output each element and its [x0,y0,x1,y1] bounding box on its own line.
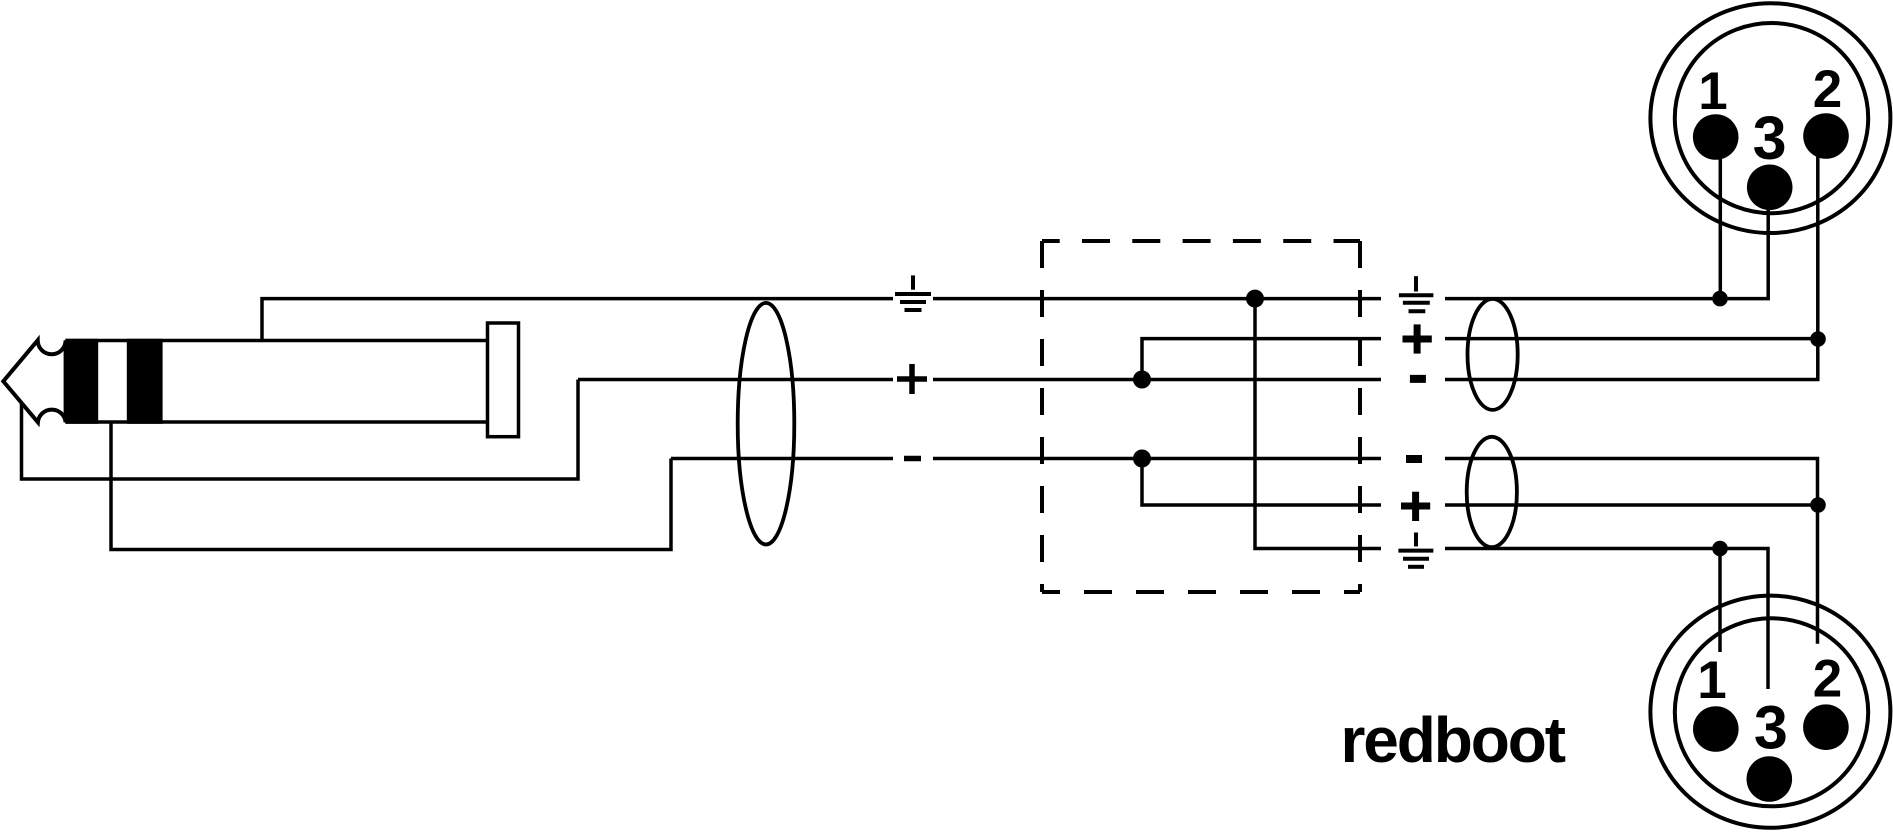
wire ground lower right segment to XLR2 pin3 [1445,549,1768,690]
wire hot branch up inside box to XLR1 plus line [1142,339,1381,380]
svg-text:3: 3 [1754,694,1788,762]
minus label left on cold line [904,456,921,462]
XLR1 pin 3 [1747,165,1793,211]
XLR2 pin 3 [1747,756,1793,802]
wire XLR1 plus line right segment up to pin2 [1445,337,1818,341]
jack plug J1 tip insulator band [65,339,98,424]
node dot ground to XLR1 pin1 [1712,291,1728,307]
wire hot line right segment turning up to pin2 node [1445,145,1818,380]
wire ring tail: from jack body down and right up to cold line [111,423,671,550]
wire ground line right segment to XLR1 pin3 [1445,200,1768,299]
jack plug J1 collar [488,323,519,437]
XLR2 pin 1 [1693,706,1739,752]
wire cold branch down inside box to XLR2 plus line [1142,459,1381,506]
jack plug J1 body outline [65,341,487,423]
wire ground branch down inside box [1255,299,1381,549]
minus label right upper [1410,375,1426,383]
wire tip tail: from tip down and right up to hot line [22,380,579,480]
jack plug J1 tip [3,340,65,422]
XLR connector X2 inner circle [1675,618,1868,806]
wire cold line middle segment [933,457,1381,461]
wire hot line middle segment [933,378,1381,382]
XLR connector X2 outer circle [1650,596,1890,828]
node dot on cold line in box [1133,450,1151,468]
wire ground line middle segment [933,297,1381,301]
XLR connector X1 outer circle [1650,3,1890,233]
cable shield ellipse E1 [738,303,795,545]
node dot at XLR2 pin2 junction [1810,497,1826,513]
XLR2 pin 2 [1803,704,1849,750]
ground symbol G1 on left ground line [895,275,931,310]
svg-text:redboot: redboot [1341,704,1566,776]
wire XLR2 plus line right segment [1445,503,1818,507]
node dot on hot line in box [1133,371,1151,389]
junction box dashed outline [1042,241,1360,592]
wire cold line right segment turning down to XLR2 pin2 [1445,459,1818,644]
svg-text:3: 3 [1753,104,1787,172]
node dot ground to XLR2 pin1 [1712,541,1728,557]
wire XLR1 pin1 lead [1719,145,1723,299]
svg-text:2: 2 [1813,649,1842,708]
svg-text:1: 1 [1698,62,1727,121]
wire sleeve from jack body to ground line [262,299,893,340]
ground symbol G2 on right upper ground line [1399,276,1434,311]
ground symbol G3 on right lower ground line [1398,533,1433,567]
XLR1 pin 2 [1803,113,1849,159]
cable shield ellipse E3 lower right [1467,437,1517,547]
minus label right lower [1406,455,1422,463]
node dot at XLR1 pin2 junction [1810,331,1826,347]
XLR1 pin 1 [1693,114,1739,160]
wire hot (+) line left segment [578,378,893,382]
wire XLR2 pin1 lead [1718,549,1722,653]
wire cold (-) line left segment [671,457,893,461]
svg-text:1: 1 [1697,651,1726,710]
plus label right upper [1403,324,1432,353]
plus label left on hot line [897,364,927,394]
plus label right lower [1401,492,1430,521]
node dot on ground line in box [1246,290,1264,308]
svg-text:2: 2 [1813,60,1842,119]
cable shield ellipse E2 upper right [1468,299,1518,410]
jack plug J1 ring insulator band [127,339,163,424]
XLR connector X1 inner circle [1675,23,1868,213]
